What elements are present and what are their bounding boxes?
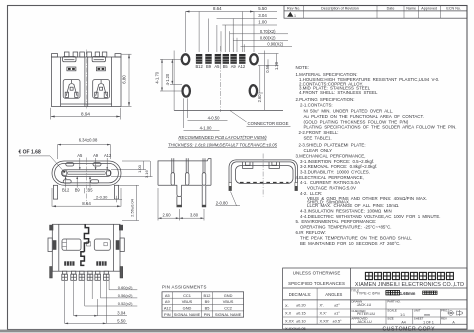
svg-text:0.52(x2): 0.52(x2): [118, 301, 133, 306]
svg-text:UNIT: UNIT: [414, 309, 421, 313]
svg-text:GND: GND: [183, 306, 192, 311]
svg-text:SIGNAL NAME: SIGNAL NAME: [174, 312, 201, 317]
svg-text:A5: A5: [214, 64, 220, 69]
svg-text:3.80: 3.80: [190, 213, 199, 218]
right dims 1.20 0.56 2.60: [258, 53, 279, 55]
top corner marks: [49, 225, 53, 231]
svg-text:X.XX': X.XX': [320, 318, 330, 323]
revision table: [284, 6, 467, 19]
connector outline: [173, 51, 175, 111]
svg-text:Rev No.: Rev No.: [287, 7, 300, 11]
bottom view (bottom-left): [48, 224, 137, 324]
bottom hatched edge: [240, 182, 289, 184]
svg-text:2.60: 2.60: [163, 213, 172, 218]
dim 3.04: [73, 281, 75, 316]
tongue: [62, 170, 112, 177]
svg-text:1.00: 1.00: [137, 164, 142, 173]
corner tabs: [52, 54, 58, 57]
svg-text:B5: B5: [205, 306, 210, 311]
pin assignments table: [162, 284, 244, 317]
svg-text:X.X: X.X: [285, 311, 292, 316]
svg-text:SPECIFIED TOLERANCES: SPECIFIED TOLERANCES: [288, 281, 345, 286]
dim 0.90(X2): [241, 46, 293, 48]
svg-text:3.16: 3.16: [144, 170, 149, 179]
svg-text:4.ELECTRICAL PERFORMANCE,: 4.ELECTRICAL PERFORMANCE,: [296, 175, 364, 180]
svg-text:VBUS: VBUS: [223, 299, 234, 304]
leader verticals: [185, 12, 187, 53]
svg-text:±0.15: ±0.15: [296, 311, 306, 316]
svg-text:TYPE-C 6Pin: TYPE-C 6Pin: [356, 292, 380, 296]
dims 2.60 3.80: [157, 188, 159, 221]
svg-text:2-0.30: 2-0.30: [96, 194, 108, 199]
svg-text:4-0.50: 4-0.50: [208, 115, 221, 120]
svg-text:SIGNAL NAME: SIGNAL NAME: [215, 312, 242, 317]
svg-text:A9: A9: [231, 64, 237, 69]
top bar + bends: [236, 160, 291, 162]
inner body: [236, 166, 294, 184]
svg-text:1:1: 1:1: [400, 313, 405, 317]
svg-text:X.XX: X.XX: [285, 318, 294, 323]
svg-text:1.20: 1.20: [274, 61, 279, 70]
svg-text:4-1.70: 4-1.70: [155, 71, 160, 83]
svg-text:4.FRONT SHELL: STAINLESS STEEL: 4.FRONT SHELL: STAINLESS STEEL: [299, 90, 378, 95]
dimension 8.94: [50, 108, 52, 120]
dim row 1.00: [222, 24, 277, 26]
svg-text:€ OF 1.68: € OF 1.68: [19, 149, 41, 155]
svg-text:2-3.SHIELD PLATE&EMI PLATE:: 2-3.SHIELD PLATE&EMI PLATE:: [299, 143, 366, 148]
svg-text:A12: A12: [104, 153, 112, 158]
svg-text:CONNECTOR EDGE: CONNECTOR EDGE: [248, 121, 289, 126]
oval pads: [182, 54, 190, 64]
svg-text:0.80(X2): 0.80(X2): [260, 35, 276, 40]
svg-text:3.04: 3.04: [117, 311, 126, 316]
svg-text:CUSTOMER COPY: CUSTOMER COPY: [382, 326, 435, 332]
svg-text:GND: GND: [224, 293, 233, 298]
svg-text:4-3.INSULATION RESISTANCE: 100: 4-3.INSULATION RESISTANCE: 100MΩ MIN: [300, 208, 392, 213]
centerline: [262, 154, 264, 197]
svg-text:3.MECHANICAL PERFORMANCE,: 3.MECHANICAL PERFORMANCE,: [296, 154, 366, 159]
svg-text:X.: X.: [285, 303, 289, 308]
bottom gray band: [0, 330, 474, 333]
hatched pads: [64, 261, 106, 265]
svg-text:4-4.DIELECTRIC WITHSTAND VOLTA: 4-4.DIELECTRIC WITHSTAND VOLTAGE,AC 100V…: [300, 214, 440, 219]
svg-text:NI 50u" MIN. UNDER PLATED OVER: NI 50u" MIN. UNDER PLATED OVER ALL.: [304, 108, 394, 113]
svg-text:X.X': X.X': [320, 311, 327, 316]
third angle projection symbol: [447, 310, 462, 316]
svg-text:8.64: 8.64: [82, 201, 91, 206]
inner shell stadium: [55, 163, 119, 183]
notes: [296, 65, 457, 246]
dim 0.80(X2): [233, 39, 288, 41]
svg-text:B9: B9: [205, 299, 210, 304]
rear shell view: [229, 154, 298, 197]
svg-text:ANGLES: ANGLES: [325, 292, 342, 297]
svg-text:3.04: 3.04: [258, 13, 267, 18]
svg-text:B12: B12: [62, 188, 70, 193]
svg-text:SEE TABLE1.: SEE TABLE1.: [304, 135, 332, 140]
dim row 8.64 / 5.50: [186, 11, 278, 13]
svg-text:3-3.DURABILITY: 10000 CYCLES.: 3-3.DURABILITY: 10000 CYCLES.: [300, 169, 370, 174]
dim 0.70(X2): [230, 33, 288, 35]
outer shell stadium: [52, 161, 121, 185]
svg-text:A5: A5: [77, 153, 83, 158]
pads: [196, 54, 246, 64]
svg-text:0.56: 0.56: [265, 64, 270, 73]
svg-text:A9: A9: [93, 153, 99, 158]
svg-text:B12: B12: [195, 64, 203, 69]
right half details: [92, 57, 109, 99]
pins row: [62, 271, 109, 280]
svg-text:4-1. CURRENT RATING:5.0A: 4-1. CURRENT RATING:5.0A: [300, 180, 360, 185]
body outline: [52, 57, 122, 107]
svg-text:3-2.REMOVAL FORCE: 0.8kgf~2.0k: 3-2.REMOVAL FORCE: 0.8kgf~2.0kgf.: [300, 164, 377, 169]
svg-text:UNLESS OTHERWISE: UNLESS OTHERWISE: [293, 271, 341, 276]
company name (CJK drawn as glyph blocks): [365, 272, 453, 279]
top bumps: [64, 52, 69, 57]
svg-text:Name: Name: [406, 7, 416, 11]
side tabs: [48, 238, 52, 252]
svg-text:2.56±0.04: 2.56±0.04: [129, 198, 134, 217]
svg-text:DECIMALS:: DECIMALS:: [289, 292, 312, 297]
svg-text:OPERATING TEMPERATURE: -25°C~+: OPERATING TEMPERATURE: -25°C~+85°C.: [300, 225, 392, 230]
oval front view (middle-left): [19, 138, 153, 221]
svg-text:6.34±0.08: 6.34±0.08: [79, 138, 98, 143]
svg-text:Description of Revision: Description of Revision: [321, 7, 359, 11]
svg-text:B5: B5: [223, 64, 229, 69]
svg-text:VOLTAGE RATING:5.0V: VOLTAGE RATING:5.0V: [307, 186, 356, 191]
svg-text:SCALE: SCALE: [387, 309, 397, 313]
svg-text:A4: A4: [401, 320, 405, 324]
svg-text:Au PLATED ON THE FUNCTIONAL AR: Au PLATED ON THE FUNCTIONAL AREA OF CONT…: [304, 114, 424, 119]
svg-text:B12: B12: [204, 293, 211, 298]
svg-text:0.56(x2): 0.56(x2): [118, 293, 133, 298]
svg-text:CC1: CC1: [183, 293, 191, 298]
svg-text:PIN: PIN: [164, 312, 171, 317]
dims 0.60 0.56 0.52: [108, 281, 110, 290]
slots on ring: [66, 163, 74, 166]
svg-text:Date: Date: [387, 7, 395, 11]
svg-text:4-1.20: 4-1.20: [165, 73, 170, 85]
svg-text:A9: A9: [165, 299, 170, 304]
svg-text:5.50: 5.50: [117, 318, 126, 323]
svg-text:JACK.LU: JACK.LU: [357, 303, 372, 307]
svg-text:PIN: PIN: [204, 312, 211, 317]
dim 8.64 bottom: [51, 188, 53, 207]
pcb layout view (top-middle): [155, 6, 293, 147]
svg-text:6.80: 6.80: [122, 75, 127, 84]
svg-text:(GOLD PLATING THICKNESS FOLLOW: (GOLD PLATING THICKNESS FOLLOW THE P/N): [304, 119, 409, 124]
side wall hatch marks: [53, 240, 57, 250]
svg-text:THE PEAK TEMPERATURE ON THE BO: THE PEAK TEMPERATURE ON THE BOARD SHALL: [300, 235, 412, 240]
svg-text:LLCR MAX. CHANGE OF ALL PINS:: LLCR MAX. CHANGE OF ALL PINS: 10mΩ.: [307, 203, 399, 208]
svg-text:2-1.CONTACTS:: 2-1.CONTACTS:: [300, 103, 333, 108]
svg-text:0.70(X2): 0.70(X2): [260, 29, 276, 34]
svg-text:X'.: X'.: [320, 303, 324, 308]
svg-text:PETER.LIU: PETER.LIU: [357, 312, 376, 316]
svg-text:6.IR REFLOW:: 6.IR REFLOW:: [296, 230, 326, 235]
svg-text:1.00: 1.00: [258, 20, 267, 25]
name cells: [351, 300, 449, 321]
connector edge callout: [230, 111, 247, 122]
title block: [283, 268, 467, 332]
svg-text:5.50: 5.50: [258, 6, 267, 11]
svg-text:1 OF 1: 1 OF 1: [423, 320, 434, 324]
center line: [86, 158, 88, 205]
svg-text:PROJ: PROJ: [441, 309, 449, 313]
svg-text:XIAMEN JINBEILI ELECTRONICS CO: XIAMEN JINBEILI ELECTRONICS CO.,LTD: [355, 282, 464, 288]
mid-plate zigzag: [81, 224, 89, 265]
svg-text:0.60(x2): 0.60(x2): [118, 285, 133, 290]
svg-text:±0.05: ±0.05: [296, 326, 306, 331]
dim row 3.04: [217, 18, 277, 20]
legs: [53, 185, 57, 199]
svg-text:A5: A5: [165, 293, 170, 298]
svg-text:CC2: CC2: [224, 306, 232, 311]
svg-text:THICKNESS: 1.6±0.10MM;DEFAULT: THICKNESS: 1.6±0.10MM;DEFAULT TOLERANCE:…: [168, 142, 278, 147]
svg-text:B9: B9: [75, 188, 81, 193]
svg-text:0.90(X2): 0.90(X2): [267, 42, 283, 47]
svg-text:A12: A12: [164, 306, 171, 311]
center divider: [84, 57, 86, 107]
svg-text:5. ENVIRONMENTAL PERFORMANCE:: 5. ENVIRONMENTAL PERFORMANCE:: [296, 219, 377, 224]
svg-text:CLEAR ONLY: CLEAR ONLY: [304, 148, 333, 153]
dim 5.50: [64, 281, 66, 323]
feet: [229, 183, 232, 191]
side view (middle): [158, 158, 240, 220]
svg-text:mm: mm: [424, 313, 430, 317]
svg-text:Approved: Approved: [421, 7, 437, 11]
svg-text:4-1.00: 4-1.00: [200, 126, 213, 131]
svg-text:JACK.LU: JACK.LU: [357, 320, 372, 324]
side walls: [60, 57, 62, 107]
svg-text:8.94: 8.94: [81, 111, 90, 116]
svg-text:±2°: ±2°: [334, 303, 340, 308]
pins: [171, 158, 206, 185]
svg-text:B9: B9: [206, 64, 212, 69]
front view (top-left): [51, 50, 132, 120]
svg-text:SIZE: SIZE: [387, 317, 393, 321]
body with stepped bottom: [158, 159, 211, 186]
svg-text:1: 1: [294, 14, 296, 18]
svg-text:2.PLATING SPECIFICATION:: 2.PLATING SPECIFICATION:: [296, 97, 355, 102]
left half details: [63, 57, 80, 99]
svg-text:PART NO.: PART NO.: [387, 300, 401, 304]
left dims 4-1.70 4-1.20: [160, 58, 182, 60]
svg-text:±0.5°: ±0.5°: [333, 318, 343, 323]
svg-text:A12: A12: [238, 64, 246, 69]
svg-text:ECN No.: ECN No.: [446, 7, 461, 11]
svg-text:2-0.80: 2-0.80: [216, 201, 229, 206]
pcb centerline: [220, 46, 222, 112]
svg-text:NOTE:: NOTE:: [296, 65, 309, 70]
svg-text:BE MAINTAINED FOR 10 SECONDS A: BE MAINTAINED FOR 10 SECONDS AT 260°C.: [300, 241, 401, 246]
svg-text:2-2.FRONT SHELL:: 2-2.FRONT SHELL:: [299, 130, 339, 135]
svg-text:B5: B5: [87, 188, 93, 193]
dims 4-0.50 and 4-1.00: [183, 98, 185, 128]
bottom side tabs: [50, 267, 53, 279]
svg-text:RECOMMENDED PCB LAYOUT(TOP VIE: RECOMMENDED PCB LAYOUT(TOP VIEW): [178, 135, 267, 140]
svg-text:2.60: 2.60: [257, 94, 262, 103]
legs: [177, 196, 182, 207]
svg-text:1.68mm: 1.68mm: [400, 291, 416, 296]
svg-text:PIN ASSIGNMENTS: PIN ASSIGNMENTS: [162, 284, 207, 289]
right dims 1.00 3.16 2.56±0.04: [122, 160, 150, 162]
svg-text:REV: REV: [441, 317, 447, 321]
dimension 6.80: [122, 53, 132, 55]
inner blocks: [62, 239, 81, 250]
bottom inner line: [61, 103, 112, 105]
svg-text:±0.20: ±0.20: [296, 303, 307, 308]
svg-text:±0.10: ±0.10: [296, 318, 307, 323]
svg-text:PLATING SPECIFICATIONS OF THE: PLATING SPECIFICATIONS OF THE SOLDER ARE…: [304, 125, 457, 130]
svg-text:8.64: 8.64: [213, 6, 222, 11]
side wall lines: [58, 224, 60, 271]
svg-text:±1°: ±1°: [334, 311, 340, 316]
svg-text:VBUS: VBUS: [182, 299, 193, 304]
top cutouts: [243, 162, 280, 168]
